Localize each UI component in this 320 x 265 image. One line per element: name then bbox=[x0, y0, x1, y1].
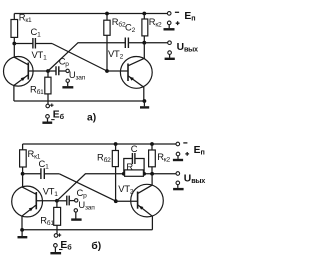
node VT2 base (a) bbox=[105, 69, 109, 73]
wire C1 to diagonal b bbox=[44, 173, 59, 175]
capacitor C2 (a) bbox=[125, 38, 128, 49]
terminal Eb minus (b) bbox=[54, 244, 58, 248]
svg-text:Eб: Eб bbox=[53, 109, 65, 121]
terminal Uvyh top (a) bbox=[168, 41, 172, 45]
wire Cp to Uzap terminal b bbox=[69, 200, 74, 202]
wire cross-coupling diagonal VT1 base to RC b bbox=[57, 174, 124, 201]
ground at VT2 emitter (a) bbox=[143, 101, 145, 106]
capacitor Cp (a) bbox=[56, 66, 59, 75]
terminal Uzap top (b) bbox=[75, 199, 78, 202]
terminal Eb plus (b) bbox=[54, 234, 58, 238]
wire VT2 base b bbox=[116, 200, 138, 202]
capacitor C1 (b) bbox=[41, 168, 44, 179]
wire node to C1 b bbox=[23, 173, 41, 175]
wire top supply rail a bbox=[14, 13, 167, 15]
capacitor Cp (b) bbox=[67, 196, 69, 206]
minus sign Eb (a) bbox=[51, 119, 54, 121]
ground at VT1 emitter (b) bbox=[21, 230, 23, 236]
capacitor C (b) bbox=[132, 153, 135, 164]
terminal Ep plus (b) bbox=[176, 152, 180, 156]
resistor Rk1 (a) bbox=[11, 20, 18, 38]
plus sign Ep (a) bbox=[176, 21, 180, 25]
wire VT1 base b bbox=[36, 200, 57, 202]
wire Rk2 top stub bbox=[143, 14, 145, 20]
terminal Ep minus (a) bbox=[167, 12, 171, 16]
node collector VT1 (b) bbox=[21, 172, 25, 176]
transistor VT1 (b) bbox=[12, 174, 43, 230]
resistor Rb1 (b) bbox=[54, 207, 61, 225]
wire Cp to Uzap terminal bbox=[59, 70, 66, 72]
svg-text:б): б) bbox=[91, 240, 101, 252]
resistor Rk1 (b) bbox=[20, 150, 27, 167]
svg-text:C: C bbox=[131, 143, 138, 154]
wire Rb2 to VT2 base b bbox=[115, 167, 117, 202]
wire node to C1 bbox=[14, 43, 33, 45]
resistor R (b) bbox=[125, 170, 144, 176]
plus sign Eb (b) bbox=[58, 233, 61, 236]
node collector VT1 (a) bbox=[12, 42, 16, 46]
terminal Uvyh bottom (b) bbox=[176, 181, 180, 185]
svg-text:Eп: Eп bbox=[184, 11, 195, 23]
ground at Ep (a) bbox=[168, 25, 170, 28]
terminal Ep plus (a) bbox=[167, 21, 171, 25]
ground at Uvyh (b) bbox=[177, 185, 179, 188]
wire cross-coupling diagonal C1 to VT2 base bbox=[52, 44, 107, 72]
node rail Rk2 bbox=[142, 12, 146, 16]
terminal Uzap bottom (b) bbox=[74, 209, 77, 212]
wire Rb2 top stub bbox=[106, 14, 108, 21]
wire Rb1 top stub b bbox=[56, 201, 58, 208]
wire C2 to Rk2 node bbox=[128, 42, 144, 44]
svg-text:Eб: Eб bbox=[60, 240, 72, 252]
minus sign Eb (b) bbox=[59, 249, 63, 251]
wire Rb2 to VT2 base bbox=[106, 35, 108, 71]
wire Rb1 to Eb terminal b bbox=[56, 225, 58, 234]
wire Rk1 bottom stub b bbox=[22, 167, 24, 174]
terminal Eb minus (a) bbox=[46, 115, 50, 119]
resistor Rb1 (a) bbox=[45, 77, 51, 94]
svg-text:Uвых: Uвых bbox=[184, 173, 205, 185]
node RC left bbox=[122, 172, 126, 176]
terminal Eb plus (a) bbox=[46, 104, 50, 108]
wire bottom rail a bbox=[14, 100, 145, 102]
node VT2 base (b) bbox=[114, 199, 118, 203]
ground at Eb (b) bbox=[54, 247, 56, 252]
wire Rb1 top stub bbox=[47, 71, 49, 77]
resistor Rk2 (a) bbox=[142, 19, 148, 36]
wire cross-coupling diagonal VT1 base to C2 bbox=[48, 43, 125, 71]
wire Rk2 bottom stub b bbox=[151, 167, 153, 174]
wire bottom rail b bbox=[22, 229, 152, 231]
minus sign Ep (b) bbox=[183, 142, 187, 144]
node rail Rk2 b bbox=[150, 142, 154, 146]
wire Rb1 to Eb terminal bbox=[47, 94, 49, 104]
resistor Rb2 (a) bbox=[104, 20, 110, 35]
wire node B to Cp bbox=[48, 70, 56, 72]
wire cross-coupling diagonal C1 to VT2 base b bbox=[59, 174, 116, 201]
transistor VT1 (a) bbox=[3, 44, 33, 102]
resistor Rk2 (b) bbox=[149, 150, 156, 167]
wire Rb2 top stub b bbox=[115, 144, 117, 151]
wire C branch (b) bbox=[124, 159, 144, 174]
ground at Uzap (a) bbox=[67, 82, 69, 86]
ground at Uvyh (a) bbox=[169, 55, 171, 58]
transistor VT2 (b) bbox=[131, 174, 164, 230]
resistor Rb2 (b) bbox=[112, 151, 118, 167]
wire node to Uvyh terminal bbox=[144, 42, 167, 44]
terminal Uvyh top (b) bbox=[176, 172, 180, 176]
wire Rk1 top stub b bbox=[22, 144, 24, 150]
minus sign Ep (a) bbox=[175, 11, 179, 13]
wire top supply rail b bbox=[23, 143, 176, 145]
wire node B to Cp b bbox=[57, 200, 67, 202]
transistor VT2 (a) bbox=[120, 43, 152, 101]
terminal Ep minus (b) bbox=[176, 142, 180, 146]
ground at Ep (b) bbox=[177, 156, 179, 159]
plus sign Ep (b) bbox=[185, 152, 189, 156]
wire Rk2 bottom stub bbox=[143, 36, 145, 43]
node RC right bbox=[142, 172, 146, 176]
svg-text:Uвых: Uвых bbox=[177, 42, 198, 54]
wire Rk1 bottom stub bbox=[13, 37, 15, 43]
plus sign Eb (a) bbox=[50, 104, 53, 107]
node VT1 base (b) bbox=[55, 199, 59, 203]
node emitter VT2 ground bbox=[143, 99, 147, 103]
svg-text:R: R bbox=[126, 161, 133, 172]
wire VT2 base bbox=[107, 70, 128, 72]
node VT1 base (a) bbox=[46, 69, 50, 73]
node VT2 collector (a) bbox=[142, 41, 146, 45]
ground at Uzap (b) bbox=[75, 212, 77, 219]
ground at Eb (a) bbox=[47, 118, 49, 121]
wire C1 to diagonal bbox=[35, 43, 52, 45]
capacitor C1 (a) bbox=[33, 38, 36, 49]
node emitter VT1 ground b bbox=[20, 228, 24, 232]
terminal Uvyh bottom (a) bbox=[168, 51, 172, 55]
wire VT1 base bbox=[28, 70, 48, 72]
svg-text:а): а) bbox=[87, 113, 96, 124]
wire RC network line to Uvyh bbox=[124, 173, 176, 175]
wire Rk1 top stub bbox=[13, 14, 15, 20]
node rail Rb2 bbox=[105, 12, 109, 16]
svg-text:Eп: Eп bbox=[194, 145, 205, 157]
node rail Rb2 b bbox=[114, 142, 118, 146]
wire Rk2 top stub b bbox=[151, 144, 153, 150]
node VT2 collector (b) bbox=[150, 172, 154, 176]
terminal Uzap bottom (a) bbox=[66, 79, 69, 82]
terminal Uzap top (a) bbox=[66, 69, 69, 72]
